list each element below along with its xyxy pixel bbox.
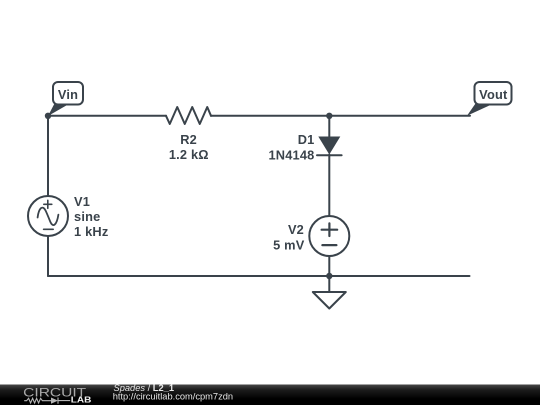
V1 minus sign [44, 228, 54, 230]
V1 sine glyph [38, 208, 59, 225]
V2 plus sign [322, 223, 338, 236]
svg-text:5 mV: 5 mV [273, 238, 305, 253]
wire below V1 [47, 236, 49, 276]
svg-text:sine: sine [74, 209, 100, 224]
junction dot diode/top wire [326, 113, 332, 119]
wire diode to V2 [328, 155, 330, 217]
svg-text:1.2 kΩ: 1.2 kΩ [169, 147, 209, 162]
flag box Vout [475, 82, 512, 105]
ground symbol [313, 292, 346, 309]
wire below V2 [328, 256, 330, 276]
svg-text:R2: R2 [180, 132, 197, 147]
wire left vertical [47, 116, 49, 196]
wire bottom [48, 275, 470, 277]
svg-text:http://circuitlab.com/cpm7zdn: http://circuitlab.com/cpm7zdn [113, 392, 233, 402]
flag tail Vin [48, 104, 68, 117]
voltage source V2 [309, 216, 349, 256]
svg-text:V2: V2 [288, 222, 304, 237]
wire top right segment [211, 115, 470, 117]
V1 plus sign [44, 200, 52, 208]
svg-text:1 kHz: 1 kHz [74, 224, 108, 239]
wire top left segment [48, 115, 166, 117]
wire diode branch top [328, 116, 330, 137]
junction dot ground/bottom wire [326, 273, 332, 279]
V2 minus sign [322, 244, 336, 246]
logo circuit glyph [24, 398, 51, 403]
resistor R2 [166, 107, 211, 124]
svg-text:Vout: Vout [479, 87, 508, 102]
svg-text:V1: V1 [74, 194, 90, 209]
diode D1 triangle [318, 137, 340, 155]
svg-text:Vin: Vin [58, 87, 78, 102]
node dot Vin [45, 113, 51, 119]
flag box Vin [53, 82, 83, 105]
logo diode glyph [51, 398, 58, 404]
diode D1 bar [317, 154, 342, 156]
svg-text:LAB: LAB [71, 395, 92, 405]
voltage source V1 [28, 196, 68, 236]
svg-text:D1: D1 [298, 132, 315, 147]
footer bar [0, 385, 540, 405]
flag tail Vout [467, 104, 492, 116]
ground stub [328, 276, 330, 292]
svg-text:1N4148: 1N4148 [268, 148, 314, 163]
